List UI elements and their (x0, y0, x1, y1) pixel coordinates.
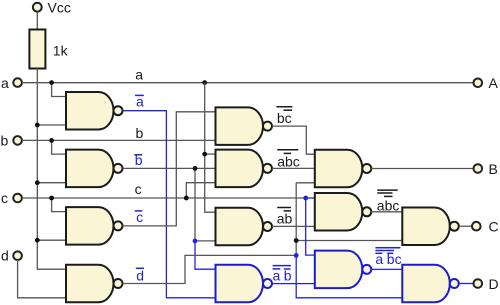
NAND gate U3 (c inverter) (66, 207, 114, 245)
svg-text:d: d (1, 248, 9, 264)
wire b-bar riser down to U7 pin2 (195, 168, 216, 241)
NAND gate U11 (a-bar bc gate, blue) (315, 251, 363, 289)
output terminal D (474, 279, 483, 288)
junction a-branch (49, 80, 54, 85)
overline abc short (384, 195, 393, 197)
svg-text:b: b (1, 132, 9, 148)
junction c-U6 (184, 196, 189, 201)
junction rail-U1 (35, 123, 40, 128)
bubble U6 (263, 164, 272, 173)
output terminal B (474, 164, 483, 173)
NAND gate U7 (a b-bar) (216, 208, 264, 246)
svg-text:c: c (1, 190, 8, 206)
output terminal A (474, 79, 483, 88)
wire U13 out (blue) to terminal D (459, 283, 474, 285)
input terminal c (13, 194, 22, 203)
wire net c horizontal (22, 197, 306, 199)
overline b-bar (134, 154, 142, 156)
wire U6 out to U9 pin2 (272, 167, 315, 169)
overline over a blue (375, 252, 382, 254)
wire pull-up rail vertical (37, 69, 66, 270)
bubble U2 (114, 164, 123, 173)
resistor R1 (29, 30, 45, 69)
wire net b-bar from U2 to U6 pin2 (123, 167, 216, 169)
svg-text:1k: 1k (53, 43, 69, 59)
bubble U3 (114, 221, 123, 230)
svg-text:Vcc: Vcc (48, 0, 71, 16)
svg-text:a: a (1, 75, 9, 91)
svg-text:a: a (273, 267, 281, 283)
NAND gate U6 (a b-bar c, 3 input) (216, 150, 263, 188)
NAND gate U2 (b inverter) (66, 150, 113, 188)
overline abc longest (377, 189, 397, 191)
wire a branch to U6 pin1 (205, 153, 216, 155)
wire a riser down to U7 pin1 (205, 83, 216, 213)
junction d-bar blue (294, 253, 299, 258)
svg-text:A: A (489, 75, 499, 91)
junction c blue (303, 196, 308, 201)
overline a-bar b-bar long (273, 265, 291, 267)
junction a-riser (202, 80, 207, 85)
svg-text:abc: abc (277, 154, 300, 170)
wire B pin3 stub (296, 182, 315, 184)
NAND gate U8 (a-bar b-bar, blue) (216, 265, 264, 303)
input terminal d (13, 251, 22, 260)
overline bc long (276, 106, 292, 108)
wire rail branch to U2 pin2 (37, 182, 66, 184)
wire blue branch down to U13 pin2 (296, 255, 402, 297)
bubble U7 (263, 222, 272, 231)
svg-text:a: a (135, 67, 143, 83)
NAND gate U5 (b AND c-bar) (216, 107, 264, 145)
wire net b horizontal to U5 pin2 (22, 139, 216, 141)
NAND gate U4 (d inverter) (66, 265, 114, 303)
junction b-bar blue (193, 239, 198, 244)
junction rail-U2 (35, 180, 40, 185)
input terminal b (13, 136, 22, 145)
svg-text:d: d (136, 268, 144, 284)
bubble U12 (450, 222, 459, 231)
wire d down and to U4 pin2 (18, 260, 66, 298)
NAND gate U12 (C gate) (402, 207, 450, 245)
bubble U4 (114, 279, 123, 288)
junction b-branch (49, 138, 54, 143)
bubble U1 (114, 106, 123, 115)
junction c-branch (49, 196, 54, 201)
overline c-bar (135, 210, 143, 212)
overline over a (273, 268, 281, 270)
wire U9 out to terminal B (371, 168, 473, 170)
NAND gate U13 (D gate, blue) (402, 265, 450, 303)
bubble U13 (450, 279, 459, 288)
output terminal C (472, 222, 481, 231)
wire net a horizontal (22, 82, 474, 84)
wire c branch up to U6 pin3 (186, 183, 215, 198)
wire net d-bar from U4 to junction (123, 255, 297, 283)
power terminal Vcc (33, 3, 42, 12)
svg-text:b: b (136, 125, 144, 141)
junction d-bar C branch (294, 238, 299, 243)
overline over b of ab (284, 210, 291, 212)
NAND gate U1 (a inverter) (66, 92, 114, 130)
junction a-U6 (202, 152, 207, 157)
overline over b (284, 268, 291, 270)
input terminal a (13, 78, 22, 87)
wire c blue stub to U10 pin1 (306, 197, 315, 199)
overline over b (284, 152, 291, 154)
wire U12 out to terminal C (459, 225, 472, 227)
wire b branch down to U2 pin1 (52, 140, 66, 154)
svg-text:c: c (135, 181, 142, 197)
NAND gate U10 (abc gate) (315, 193, 363, 231)
wire U11 out (blue) to U13 pin1 (371, 268, 402, 270)
wire rail branch to U3 pin2 (37, 239, 66, 241)
overline d-bar (136, 267, 144, 269)
wire b-bar riser blue part to U8 pin1 (195, 241, 216, 269)
svg-text:ab: ab (277, 210, 293, 226)
wire c blue riser to U11 pin1 (306, 198, 315, 255)
overline over b blue (387, 252, 393, 254)
wire U8 out (blue) to U11 pin2 (272, 283, 315, 285)
overline a-bar (135, 94, 144, 96)
overline abc medium (377, 192, 392, 194)
wire d-bar branch to U12 pin2 (296, 240, 402, 242)
wire U7 out to U10 pin2 (272, 225, 315, 227)
wire d-bar riser to U9 pin3 and C gate (295, 183, 297, 256)
overline over c (284, 109, 293, 111)
overline abc blue medium (375, 250, 394, 252)
svg-text:bc: bc (277, 110, 292, 126)
overline abc blue longest (375, 247, 400, 249)
wire c branch down to U3 pin1 (52, 198, 66, 212)
overline ab long (277, 207, 291, 209)
wire a branch down to U1 pin1 (52, 83, 66, 97)
NAND gate U9 (B gate, 3 input) (315, 150, 363, 188)
bubble U5 (263, 122, 272, 131)
svg-text:abc: abc (377, 198, 400, 214)
bubble U9 (362, 164, 371, 173)
svg-text:B: B (489, 161, 498, 177)
bubble U11 (362, 265, 371, 274)
junction b-bar riser (193, 166, 198, 171)
svg-text:D: D (489, 276, 499, 292)
junction rail-U3 (35, 238, 40, 243)
wire net a-bar (blue) from U1 to U8 pin2 (123, 111, 216, 298)
wire U5 out to U9 pin1 (272, 126, 315, 154)
wire net c-bar from U3 up to U5 pin1 (123, 112, 216, 226)
overline abc long (277, 149, 298, 151)
wire U10 out to U12 pin1 (371, 211, 402, 213)
wire Vcc to resistor (36, 12, 38, 30)
wire rail branch to U1 pin2 (37, 124, 66, 126)
bubble U10 (362, 207, 371, 216)
bubble U8 (263, 279, 272, 288)
svg-text:C: C (489, 219, 499, 235)
